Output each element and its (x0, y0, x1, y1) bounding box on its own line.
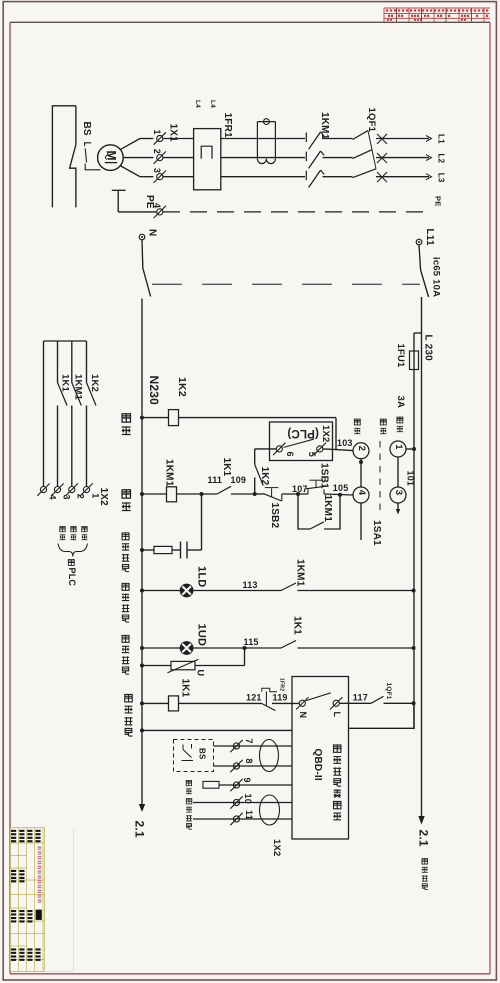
rail label auto (122, 414, 131, 435)
svg-text:2: 2 (356, 446, 367, 451)
signal contact 1K1 (57, 341, 59, 383)
relay coil 1K2 (142, 417, 169, 419)
control rail L (413, 333, 415, 729)
svg-text:2.1: 2.1 (132, 821, 146, 838)
svg-text:1SA1: 1SA1 (371, 520, 382, 546)
svg-text:1FU1: 1FU1 (395, 344, 406, 369)
wire up to coil node (201, 494, 203, 550)
svg-text:1KM1: 1KM1 (294, 559, 305, 587)
N feed to protector (140, 728, 144, 732)
wire to terminal 6 (255, 448, 277, 450)
signal contact 1K2 (86, 341, 88, 383)
svg-text:ic65 10A: ic65 10A (431, 257, 442, 297)
terminal N of protector (296, 697, 308, 709)
svg-text:1FR1: 1FR1 (222, 113, 233, 138)
relay coil 1K1 (142, 702, 169, 704)
svg-text:1K2: 1K2 (259, 467, 270, 486)
terminal L11 (416, 239, 422, 245)
stop pushbutton 1SB2 (NC) (255, 493, 263, 495)
fuse 1FU1 (410, 351, 419, 370)
rail label comprehensive fault (125, 694, 133, 736)
pair ellipse 7-8 (260, 740, 279, 772)
titleblock stamp (36, 910, 42, 920)
rail label manual (122, 490, 131, 511)
left rail N230 (141, 299, 143, 806)
svg-text:6: 6 (285, 452, 295, 457)
rail label fault indicator (122, 635, 129, 674)
circuit breaker 1QF1 (353, 131, 369, 140)
hold contact 1KM1 branch (296, 492, 300, 496)
svg-text:121: 121 (246, 692, 262, 702)
svg-text:N: N (147, 229, 158, 236)
float switch symbol (182, 745, 184, 750)
protector internal contact (306, 693, 331, 701)
signal label run (71, 526, 77, 539)
drawing number red text (38, 847, 42, 903)
titleblock text blobs (11, 830, 41, 961)
svg-text:1K1: 1K1 (179, 679, 190, 698)
selector column wires (360, 459, 362, 487)
svg-text:1K1: 1K1 (60, 374, 71, 393)
resistor (142, 549, 154, 551)
svg-text:(PLC): (PLC) (287, 427, 319, 439)
svg-text:L1: L1 (436, 134, 445, 144)
svg-text:105: 105 (333, 483, 349, 493)
relay contact 1K1 (NO) (217, 486, 231, 494)
svg-text:1K2: 1K2 (176, 377, 188, 397)
svg-text:5: 5 (307, 452, 317, 457)
svg-text:1X2: 1X2 (271, 839, 282, 857)
breaker linkage dashed (152, 283, 420, 285)
inner drawing frame (10, 21, 490, 23)
N rail arrow to 2.1 (139, 804, 145, 812)
tap to control rail (414, 332, 422, 334)
sensor line 11 (193, 818, 292, 820)
svg-text:L 230: L 230 (423, 335, 434, 362)
terminal L of protector (330, 697, 342, 709)
svg-text:1KM1: 1KM1 (73, 374, 84, 401)
svg-text:2.1: 2.1 (416, 830, 430, 847)
svg-text:3A: 3A (395, 396, 406, 409)
label leak (186, 780, 192, 793)
current sensor loop (256, 122, 258, 159)
svg-text:113: 113 (243, 580, 258, 590)
svg-text:U: U (195, 670, 205, 677)
signal label fault (60, 526, 66, 539)
wire terminal 5 to node 103 (323, 448, 336, 451)
selector label manual (397, 417, 403, 432)
brace (58, 544, 88, 557)
svg-text:N230: N230 (147, 376, 161, 406)
svg-text:L11: L11 (424, 229, 435, 247)
indicator lamp 1LD (142, 590, 180, 592)
breaker ic65 pole N (141, 240, 144, 268)
svg-text:QBD-II: QBD-II (312, 749, 323, 781)
aux contact 1KM1 (run) (281, 583, 296, 591)
svg-text:1UD: 1UD (196, 624, 208, 647)
svg-text:11: 11 (244, 810, 254, 820)
PLC terminal 5 (314, 443, 326, 455)
svg-text:4: 4 (356, 490, 367, 496)
wires 1X1 to 1FR1 (163, 138, 194, 140)
thermal overload relay 1FR1 (194, 129, 221, 190)
sensor line 9 (219, 784, 292, 786)
line end arrows L1 L2 L3 (426, 136, 432, 142)
sensor line 8 (214, 765, 293, 767)
svg-text:1K2: 1K2 (89, 374, 100, 392)
selector stop position dashes (379, 441, 381, 513)
contactor coil 1KM1 (142, 493, 167, 495)
svg-text:1KM1: 1KM1 (322, 495, 333, 523)
selector 1SA1 contact 4 (353, 487, 369, 503)
sensor line 10 (193, 802, 292, 804)
leak sensor (203, 781, 219, 788)
svg-text:L4: L4 (209, 100, 216, 108)
selector 1SA1 contact 2 (353, 443, 369, 459)
svg-text:1X2: 1X2 (320, 425, 331, 443)
wire node 103 to selector (336, 450, 353, 451)
svg-text:1KM1: 1KM1 (163, 459, 174, 487)
rail end into protector (349, 703, 415, 728)
selector 1SA1 contact 1 (390, 441, 406, 457)
contactor 1KM1 main contacts (221, 138, 305, 140)
svg-text:1SB1: 1SB1 (318, 463, 329, 489)
pair ellipse 10-11 (260, 795, 280, 825)
relay contact 1K2 (NO, auto) (254, 449, 256, 465)
svg-text:PE: PE (144, 195, 155, 209)
svg-text:3: 3 (152, 168, 162, 173)
svg-text:L4: L4 (194, 100, 201, 108)
svg-text:1SB2: 1SB2 (269, 503, 280, 529)
wire up to fault rung (244, 648, 246, 666)
thermal contact 1FR2 (NC) (262, 703, 276, 710)
PLC terminal 6 (273, 443, 285, 455)
svg-text:1: 1 (152, 130, 162, 135)
svg-text:8: 8 (244, 759, 254, 764)
svg-text:3: 3 (393, 490, 404, 495)
svg-text:PE: PE (433, 196, 442, 206)
svg-text:107: 107 (292, 484, 308, 494)
svg-text:115: 115 (244, 637, 259, 647)
svg-text:N: N (298, 712, 308, 719)
label next-unit equipment (422, 858, 428, 889)
aux contact 1QF1 (371, 696, 384, 703)
svg-text:BS: BS (198, 748, 207, 760)
PLC box (270, 422, 333, 461)
pump enclosure outline (52, 106, 76, 208)
title block bottom-left (10, 828, 73, 972)
svg-text:7: 7 (244, 739, 254, 744)
svg-text:2: 2 (76, 494, 86, 499)
svg-text:1QF1: 1QF1 (385, 683, 392, 700)
title table top-right (384, 8, 490, 22)
signal label auto (82, 526, 88, 539)
svg-text:2: 2 (152, 149, 162, 154)
sensor line 7 (214, 745, 293, 747)
svg-text:L3: L3 (436, 173, 445, 183)
svg-text:9: 9 (242, 778, 252, 783)
wire contact1 to rail (406, 448, 414, 450)
selector label auto (354, 419, 360, 434)
wire 117 to 1QF1 aux (339, 702, 371, 704)
1QF1 linkage (368, 131, 376, 169)
selector label stop (380, 419, 386, 434)
right feeder line to next unit (421, 297, 423, 818)
terminal N (139, 234, 145, 240)
breaker ic65 pole L (419, 245, 421, 270)
svg-text:BS: BS (81, 122, 92, 136)
voltage relay element U (142, 665, 171, 667)
svg-text:L2: L2 (436, 154, 445, 164)
svg-text:1: 1 (393, 444, 404, 450)
PLC signal common bus (44, 340, 87, 342)
svg-text:1X1: 1X1 (168, 124, 179, 143)
svg-text:111: 111 (208, 475, 223, 485)
svg-text:1K1: 1K1 (291, 616, 302, 635)
motor M (98, 145, 124, 171)
signal contact 1KM1 (71, 341, 73, 383)
svg-text:1LD: 1LD (196, 566, 208, 587)
svg-text:1X2: 1X2 (98, 488, 109, 507)
svg-text:109: 109 (231, 475, 247, 485)
PLC output contact (284, 439, 314, 447)
label to-PLC (68, 560, 74, 566)
wire coil to PLC node (179, 417, 337, 419)
text leak/temperature protector (333, 745, 341, 820)
rail label run indicator (122, 583, 129, 622)
start pushbutton 1SB1 (NO) (307, 489, 309, 494)
svg-text:1FR2: 1FR2 (278, 678, 284, 692)
selector 1SA1 contact 3 (390, 487, 406, 503)
terminals 1X2 (to PLC) (37, 483, 49, 495)
wire (177, 493, 218, 495)
motor leads (120, 139, 140, 150)
flow switch BS (85, 143, 92, 146)
svg-text:119: 119 (273, 692, 288, 702)
svg-text:L: L (332, 712, 342, 718)
terminal strip 1X1 (154, 132, 166, 144)
rail label electronic arc-suppression (122, 533, 129, 572)
indicator lamp 1UD (142, 647, 180, 649)
svg-text:117: 117 (353, 692, 368, 702)
svg-text:1KM1: 1KM1 (319, 112, 330, 140)
label machine temperature (186, 798, 192, 829)
svg-text:103: 103 (337, 438, 353, 448)
aux contact 1K1 (fault) (281, 641, 296, 649)
PE wire from motor (112, 189, 126, 191)
float switch box BS (dashed) (174, 740, 214, 772)
svg-text:101: 101 (406, 471, 416, 487)
capacitor (172, 549, 181, 551)
signal wire common (43, 341, 45, 486)
svg-text:PLC: PLC (67, 568, 77, 587)
svg-text:1K1: 1K1 (221, 458, 232, 477)
svg-text:10: 10 (243, 794, 253, 804)
protector box QBD-II (292, 677, 349, 840)
PE dashed bus (163, 211, 429, 213)
svg-text:1QF1: 1QF1 (366, 108, 377, 133)
